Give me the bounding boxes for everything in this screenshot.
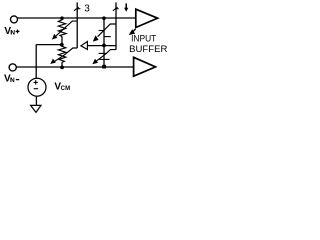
svg-text:IN: IN: [10, 29, 15, 36]
svg-text:3: 3: [84, 3, 90, 14]
svg-text:BUFFER: BUFFER: [129, 44, 168, 54]
svg-text:INPUT: INPUT: [131, 34, 157, 44]
svg-text:CM: CM: [61, 86, 71, 92]
svg-text:IN: IN: [10, 77, 15, 84]
